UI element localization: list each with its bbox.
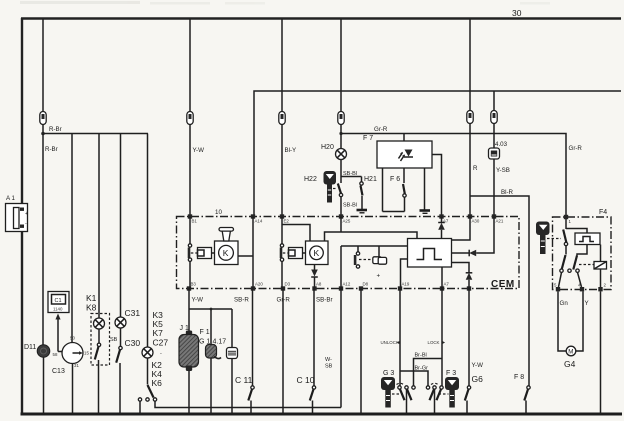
wire drop to resistor block	[231, 309, 233, 348]
svg-text:Br-Bl: Br-Bl	[415, 353, 427, 359]
bus 30 (plus rail)	[21, 8, 621, 19]
wire to change-over switches	[566, 245, 587, 256]
svg-text:Y-W: Y-W	[472, 362, 484, 369]
wire D8 to ground bus	[360, 289, 362, 415]
svg-text:A21: A21	[496, 219, 504, 224]
ground H21	[357, 210, 368, 213]
svg-text:Gr-R: Gr-R	[277, 297, 291, 304]
wire branch to F1/G1	[189, 308, 232, 345]
svg-text:+: +	[377, 273, 381, 280]
relay 1 coil	[191, 248, 215, 259]
CEM pin E2	[280, 214, 290, 223]
wire F7 left lead	[382, 168, 384, 212]
wire W-SB below CEM	[325, 289, 341, 408]
interior relay coil	[359, 246, 387, 280]
switch in K1/K8	[95, 329, 101, 360]
svg-text:SB: SB	[325, 364, 333, 370]
CEM pin A21	[492, 214, 504, 223]
svg-text:A19: A19	[402, 282, 410, 287]
wire C10 to ground bus	[312, 401, 314, 415]
CEM pin D8	[359, 282, 369, 291]
wire F8 to ground bus	[525, 401, 527, 415]
svg-text:Y: Y	[585, 300, 589, 307]
svg-text:A20: A20	[255, 282, 263, 287]
lock unit F3	[445, 370, 459, 408]
wire Gr-R horizontal to F4	[339, 125, 582, 217]
wire F1/G1 to ground bus	[210, 358, 212, 414]
CEM pin A2 bottom	[467, 286, 471, 290]
svg-text:SB: SB	[110, 337, 118, 343]
svg-text:K: K	[314, 248, 320, 258]
wire to D11	[42, 134, 44, 346]
wire F7 right lead to CEM A7	[432, 155, 442, 217]
svg-text:SB-Br: SB-Br	[316, 297, 333, 304]
svg-text:B3: B3	[191, 282, 197, 287]
CEM pin A7 top	[439, 214, 449, 223]
svg-text:LOCK: LOCK	[428, 340, 440, 345]
switch F3	[426, 383, 448, 400]
svg-text:1140: 1140	[53, 307, 63, 312]
interior relay contact	[354, 246, 360, 268]
wire R-Br to junction	[41, 125, 62, 136]
connector pin on R wire	[467, 111, 473, 124]
svg-text:F 6: F 6	[390, 176, 400, 183]
svg-text:R-Br: R-Br	[49, 126, 62, 133]
wire F3 to ground bus	[434, 389, 436, 414]
wire Bl-Y drop from 30 rail	[281, 19, 283, 112]
wire to C13	[71, 134, 73, 343]
wire Gr-R drop from 30 rail	[340, 19, 342, 112]
svg-text:SB-Bl: SB-Bl	[343, 203, 357, 209]
ground F7	[420, 211, 431, 214]
svg-text:A8: A8	[316, 282, 322, 287]
svg-text:D8: D8	[363, 282, 369, 287]
CEM pin A12	[339, 282, 351, 291]
wire pulse unit to A19	[401, 259, 408, 289]
wire A14 to A20	[252, 217, 254, 289]
switch G3	[392, 383, 415, 400]
diode under motor 2	[311, 265, 318, 289]
F4 pin 1	[564, 215, 572, 224]
motor unit relay 2	[306, 241, 329, 265]
connector pin on Gr-R wire	[338, 112, 344, 125]
CEM pin A20	[251, 282, 264, 291]
switch C30	[110, 328, 140, 363]
svg-text:C 11: C 11	[235, 375, 253, 385]
pulse unit in F4	[566, 229, 600, 245]
wire pulse unit to A7 bottom	[441, 267, 443, 289]
wire Y-SB drop from 15 feed	[493, 91, 495, 111]
connector J1	[179, 325, 199, 371]
F4 pin 2	[598, 283, 606, 292]
wire E2 branch to motor 2	[282, 225, 310, 242]
wire motor 2 to pulse unit net	[325, 232, 418, 241]
wire arrow C13 terminal 58 to C1	[55, 314, 62, 352]
wire SB-Br below CEM	[314, 289, 333, 386]
svg-text:M: M	[568, 349, 573, 356]
key F4	[536, 222, 561, 255]
svg-text:-: -	[25, 221, 27, 227]
switch F4 upper	[563, 219, 568, 246]
connector pin on Bl-Y wire	[279, 112, 285, 125]
wire F4 pin 2 to ground bus	[600, 291, 602, 414]
svg-text:50: 50	[70, 336, 75, 341]
diode unit 4.03	[489, 124, 508, 160]
svg-text:F 1: F 1	[200, 329, 210, 336]
wire lock to F3	[428, 289, 446, 386]
wire Gr-R below CEM	[277, 289, 291, 415]
wires to F4 bottom pins	[559, 272, 582, 287]
wire contact to ground bus	[139, 401, 141, 414]
wire Y to motor G4	[576, 291, 589, 351]
wire C30 to ground bus	[119, 363, 121, 414]
connector pin on Y-SB wire	[491, 111, 497, 124]
wire R drop from 30 rail	[469, 19, 471, 111]
svg-text:UNLOCK: UNLOCK	[381, 340, 399, 345]
svg-text:D3: D3	[285, 282, 291, 287]
svg-text:C30: C30	[125, 338, 141, 348]
switch G6	[465, 386, 471, 401]
svg-text:A12: A12	[343, 282, 351, 287]
wire unlock to G3	[381, 289, 401, 386]
svg-text:Gn: Gn	[560, 300, 569, 307]
svg-text:K7: K7	[153, 328, 164, 338]
svg-text:Bl-R: Bl-R	[501, 189, 514, 196]
wire A30 to pulse unit	[452, 217, 471, 241]
svg-text:F4: F4	[599, 209, 607, 216]
control module CEM housing	[177, 209, 520, 290]
wire Bl-Y to CEM E2	[282, 125, 296, 217]
CEM pin A14	[251, 214, 263, 223]
svg-text:4.03: 4.03	[495, 141, 508, 148]
wire motor 1 to A14 net	[238, 255, 253, 257]
svg-text:K6: K6	[152, 378, 163, 388]
ground bus 31	[21, 413, 623, 416]
relay 1 contact	[188, 217, 192, 289]
svg-text:A7: A7	[444, 282, 450, 287]
wire R-Br drop from 30 rail	[42, 19, 44, 112]
wire Bl-R to F8	[470, 189, 529, 386]
CEM pin A7 bottom	[440, 282, 450, 291]
relay 2 contact	[280, 217, 284, 289]
wire Y-W drop from 30 rail	[189, 19, 191, 112]
wire to CEM A25	[341, 197, 357, 217]
svg-text:C27: C27	[153, 338, 169, 348]
svg-text:A 1: A 1	[6, 195, 16, 202]
diode to A2 bottom	[452, 263, 473, 289]
wire SB-R below CEM	[234, 289, 253, 386]
switch H22	[338, 184, 343, 197]
switch F8	[514, 374, 530, 401]
svg-text:10: 10	[215, 209, 222, 216]
svg-text:15: 15	[84, 351, 89, 356]
ignition switch C13	[52, 336, 89, 376]
connector pin on R-Br wire	[40, 112, 46, 125]
wire J1 to ground bus	[188, 371, 190, 415]
svg-text:A25: A25	[343, 219, 351, 224]
svg-text:C1: C1	[55, 298, 62, 304]
wire Y-W to G6	[469, 289, 483, 386]
wire Y-W to CEM B1	[190, 125, 204, 217]
CEM pin B3	[187, 282, 197, 291]
wire C13 to ground bus	[72, 364, 74, 415]
wire C11 to ground bus	[250, 401, 252, 415]
relay unit F4 housing	[553, 209, 612, 290]
svg-text:31: 31	[74, 363, 79, 368]
svg-text:R-Br: R-Br	[45, 146, 58, 153]
switch C10	[297, 375, 316, 401]
svg-text:G4: G4	[564, 359, 576, 369]
supply line 15 feed	[254, 91, 621, 217]
motor unit relay 1	[215, 241, 239, 265]
wire G6 to ground bus	[466, 401, 468, 415]
svg-text:+: +	[25, 211, 28, 217]
switch H21	[341, 176, 377, 209]
svg-text:K8: K8	[86, 303, 97, 313]
svg-text:B1: B1	[192, 219, 198, 224]
wire D11 to ground bus	[43, 357, 45, 414]
relay coil in F4	[594, 245, 607, 290]
wire to lamp C31	[120, 134, 122, 318]
svg-text:C 10: C 10	[297, 375, 315, 385]
lamp in K1/K8	[94, 318, 105, 329]
svg-text:Gr-R: Gr-R	[374, 126, 388, 133]
motor G4	[564, 346, 576, 369]
CEM pin A25	[339, 214, 351, 223]
horn on relay 1	[219, 228, 234, 242]
diode at A7 top	[438, 217, 445, 239]
wire A12 internal net	[341, 246, 408, 289]
switch C11	[235, 375, 254, 401]
wire Y-SB to CEM A21	[494, 159, 510, 217]
svg-text:G6: G6	[472, 374, 484, 384]
lamp H20	[321, 134, 347, 160]
lamp K3/K5/K7/C27	[142, 310, 168, 358]
lock unit G3	[381, 370, 395, 408]
wire Br-Bl	[414, 353, 443, 386]
F4 pin 5	[554, 283, 560, 292]
CEM pin D3	[281, 282, 291, 291]
wire F7 mid lead to ground	[424, 168, 426, 210]
connector pin on Y-W wire	[187, 112, 193, 125]
svg-text:F 8: F 8	[514, 374, 524, 381]
svg-text:C13: C13	[52, 368, 65, 375]
svg-text:H20: H20	[321, 144, 334, 151]
svg-text:Gr-R: Gr-R	[569, 145, 583, 152]
CEM pin B1	[188, 214, 198, 223]
svg-text:C31: C31	[125, 308, 141, 318]
CEM pin A8	[312, 282, 322, 291]
svg-text:SB-R: SB-R	[234, 297, 249, 304]
wire H20 to switch node	[341, 160, 357, 184]
dashed housing K1/K8	[91, 314, 110, 366]
CEM pin A30	[468, 214, 480, 223]
svg-text:Bl-Y: Bl-Y	[285, 147, 297, 154]
svg-text:E2: E2	[284, 219, 290, 224]
horn F1/G1	[199, 329, 226, 359]
svg-text:D11: D11	[24, 344, 36, 351]
svg-text:G 3: G 3	[383, 370, 394, 377]
wire to lamp C27	[147, 134, 149, 348]
svg-text:Br-Gr: Br-Gr	[415, 366, 429, 372]
svg-text:-: -	[160, 351, 162, 357]
svg-text:CEM: CEM	[491, 279, 515, 290]
CEM pin A19	[398, 282, 410, 291]
wire link to CEM A12 net	[155, 401, 341, 407]
wire R-Br horizontal distribution	[43, 134, 148, 154]
resistor block 4.17	[227, 348, 238, 359]
fuse switch F6	[383, 168, 407, 212]
svg-text:H21: H21	[364, 176, 377, 183]
svg-text:R: R	[473, 165, 478, 172]
wire R to CEM A30	[470, 124, 478, 217]
lamp C31	[115, 308, 140, 328]
svg-text:Y-W: Y-W	[193, 147, 205, 154]
svg-text:H22: H22	[304, 176, 317, 183]
sensor D11	[24, 344, 50, 357]
key H22	[304, 171, 338, 203]
wire Gn to motor G4	[558, 291, 568, 351]
switch F4 lower pair	[560, 255, 594, 272]
wire K1/K8 to ground bus	[98, 360, 100, 414]
svg-text:Y-SB: Y-SB	[496, 167, 510, 174]
control unit F7	[363, 134, 432, 169]
wire to ground bus	[231, 359, 233, 415]
svg-text:K1: K1	[86, 293, 97, 303]
svg-text:W-: W-	[325, 357, 332, 363]
diode from A21	[452, 217, 495, 257]
wire to lamp K1/K8	[98, 134, 100, 319]
relay K1 K8 labels	[86, 293, 97, 313]
battery feed line left	[21, 18, 23, 414]
svg-text:Y-W: Y-W	[192, 297, 204, 304]
svg-text:30: 30	[512, 8, 522, 18]
svg-text:F 7: F 7	[363, 135, 373, 142]
connector C1	[48, 292, 69, 313]
switch K2/K4/K6	[138, 358, 162, 401]
battery A1	[6, 195, 29, 232]
F4 pin 4	[578, 283, 584, 292]
pulse control unit	[408, 239, 452, 268]
relay 2 coil	[283, 248, 306, 259]
wire A25 into CEM	[340, 217, 342, 233]
wire Br-Gr	[400, 366, 428, 386]
wire G3 to ground bus	[406, 389, 408, 414]
svg-text:F 3: F 3	[446, 370, 456, 377]
svg-text:A30: A30	[472, 219, 480, 224]
svg-text:58: 58	[53, 352, 58, 357]
svg-text:K: K	[223, 248, 229, 258]
wire Y-W below CEM	[189, 289, 203, 334]
svg-text:A14: A14	[255, 219, 263, 224]
scan artifact top edge	[20, 1, 550, 5]
